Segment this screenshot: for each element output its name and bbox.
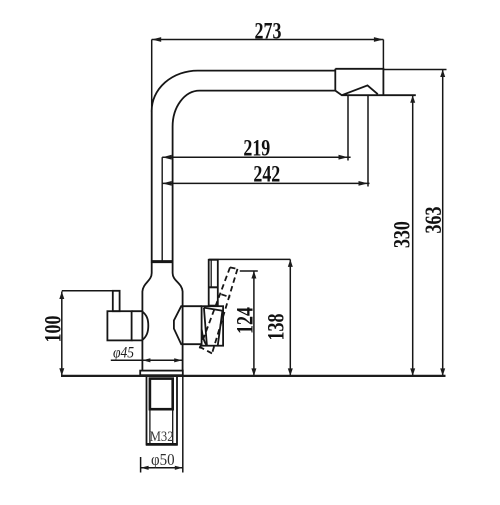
dim 138 line <box>289 259 291 376</box>
phi50 ext right <box>182 376 184 473</box>
arrows 363 <box>440 70 445 78</box>
right head rect <box>202 306 224 346</box>
arrows 100 <box>59 292 64 300</box>
arrows phi50 <box>141 466 149 470</box>
ext 242 <box>367 95 369 186</box>
svg-text:363: 363 <box>422 207 447 234</box>
dim 330 line <box>412 95 414 376</box>
shank thread box <box>150 379 173 410</box>
arrows phi45 <box>142 358 150 362</box>
svg-text:124: 124 <box>234 307 259 334</box>
spout centerline ext <box>161 157 163 261</box>
spout inner profile <box>173 91 336 262</box>
dashed wedge bottom <box>198 346 212 353</box>
dim 363 line <box>442 70 444 376</box>
dashed lever left line <box>199 267 230 350</box>
dashed lever cap <box>230 267 238 269</box>
ext 100 top <box>62 290 118 292</box>
arrows 124 <box>251 368 256 376</box>
ext 138 top <box>209 258 291 260</box>
arrows 124 <box>251 271 256 279</box>
aerator bottom <box>335 85 416 95</box>
spout outer profile <box>152 71 336 262</box>
arrowheads <box>59 37 445 470</box>
body joint thick line <box>151 260 174 263</box>
spout head box <box>335 69 383 95</box>
arrows phi45 <box>174 358 182 362</box>
svg-text:330: 330 <box>391 221 416 248</box>
body right edge <box>173 262 183 371</box>
arrows 219 <box>162 155 172 160</box>
left nut arc <box>142 311 148 340</box>
shank inner lines <box>150 409 173 444</box>
phi50 ext left <box>140 457 142 473</box>
holder divider <box>209 286 218 288</box>
svg-text:138: 138 <box>264 314 289 341</box>
shank bottom thick <box>146 443 178 446</box>
dim 100 line <box>61 292 63 376</box>
dim 273 line <box>152 39 384 41</box>
ext 124 top <box>240 270 258 272</box>
dimension lines <box>62 40 447 473</box>
arrows 330 <box>410 95 415 103</box>
dashed lever right line <box>212 269 238 354</box>
shank outer <box>147 376 178 445</box>
arrows 363 <box>440 368 445 376</box>
holder inner line <box>210 260 212 288</box>
ext 219 <box>347 95 349 160</box>
dashed joint line <box>221 294 230 297</box>
wedge arc <box>202 330 207 346</box>
arrows 330 <box>410 368 415 376</box>
dashed lever (alternate position) <box>198 267 237 353</box>
base plate <box>140 371 183 376</box>
arrows 138 <box>288 368 293 376</box>
arrows 100 <box>59 368 64 376</box>
svg-text:100: 100 <box>41 316 66 343</box>
lever holder bar <box>209 260 218 306</box>
svg-text:φ50: φ50 <box>151 451 175 469</box>
arrows 242 <box>162 181 172 186</box>
phi50 dim line <box>141 467 183 469</box>
left handle collar <box>132 311 142 340</box>
body left edge <box>142 262 151 371</box>
phi45 leader <box>111 359 182 361</box>
countertop baseline <box>61 375 446 377</box>
ext 273 left <box>151 40 153 113</box>
lever wedge solid <box>204 308 223 346</box>
dim 219 line <box>162 156 350 158</box>
left handle body <box>107 311 131 340</box>
right stem hexagon <box>174 306 202 344</box>
arrows 273 <box>374 37 384 42</box>
dim 242 line <box>162 182 369 184</box>
svg-text:φ45: φ45 <box>113 345 134 362</box>
dim 124 line <box>253 271 255 376</box>
arrows phi50 <box>175 466 183 470</box>
left knob <box>113 291 120 311</box>
arrows 138 <box>288 259 293 267</box>
ext 273 right <box>382 40 384 69</box>
arrows 219 <box>339 155 349 160</box>
arrows 273 <box>152 37 162 42</box>
svg-text:242: 242 <box>253 163 280 188</box>
ext 363 top <box>383 69 446 71</box>
svg-text:M32: M32 <box>150 428 174 444</box>
arrows 242 <box>359 181 369 186</box>
svg-text:273: 273 <box>255 19 282 44</box>
svg-text:219: 219 <box>243 136 270 161</box>
